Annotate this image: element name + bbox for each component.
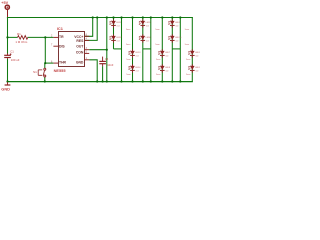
svg-text:IC1: IC1	[57, 26, 64, 31]
svg-text:R1: R1	[17, 32, 21, 36]
node R1 left tee	[6, 36, 8, 38]
LED10	[169, 34, 190, 45]
LED11	[186, 49, 202, 60]
pin stub THR	[53, 62, 58, 64]
node VCC rail	[92, 16, 94, 18]
svg-text:LED8: LED8	[165, 67, 171, 69]
wire crossover E	[172, 48, 180, 50]
pin stub VCC	[84, 35, 89, 37]
node colD bot	[161, 80, 163, 82]
svg-text:LED9: LED9	[175, 22, 181, 24]
svg-text:100 uF: 100 uF	[11, 58, 20, 62]
pin stub TR	[53, 36, 58, 38]
wire crossover A	[114, 48, 122, 50]
LED3	[126, 49, 141, 60]
wire return column A2	[121, 18, 123, 82]
LED6	[139, 34, 160, 45]
svg-text:red: red	[165, 55, 168, 57]
svg-text:red: red	[136, 55, 139, 57]
svg-text:RES: RES	[76, 39, 84, 43]
svg-text:GND: GND	[1, 87, 10, 92]
svg-text:red: red	[117, 40, 120, 42]
node colD top	[161, 16, 163, 18]
wire R1 row	[8, 36, 54, 38]
node OUT tee	[106, 49, 108, 51]
resistor R1	[18, 36, 28, 40]
pin stub GND	[84, 59, 89, 61]
LED8	[156, 64, 171, 75]
wire LED column D	[161, 18, 163, 82]
svg-text:LED1: LED1	[116, 22, 122, 24]
node colE top	[171, 16, 173, 18]
pin stub OUT	[84, 49, 89, 51]
LED9	[169, 19, 190, 30]
LED4	[126, 64, 141, 75]
svg-text:DIS: DIS	[59, 44, 65, 48]
node OUT bus bottom	[106, 80, 108, 82]
wire left vertical upper	[7, 18, 9, 54]
node colE2 bot	[179, 80, 181, 82]
svg-text:5mm: 5mm	[186, 74, 191, 76]
svg-text:red: red	[136, 70, 139, 72]
svg-text:red: red	[117, 25, 120, 27]
wire LED column C	[142, 18, 144, 82]
node switch rail	[44, 80, 46, 82]
wire OUT bus vertical	[106, 18, 108, 82]
node GND rail	[96, 80, 98, 82]
svg-text:5mm: 5mm	[155, 44, 160, 46]
svg-text:red: red	[165, 70, 168, 72]
node THR tee	[44, 62, 46, 64]
svg-text:LED11: LED11	[195, 52, 200, 54]
supply +5V symbol	[5, 5, 9, 17]
svg-text:LED12: LED12	[195, 67, 200, 69]
node colA2 top	[120, 16, 122, 18]
node colB top	[131, 16, 133, 18]
LED5	[139, 19, 160, 30]
switch S1	[38, 68, 46, 77]
wire bottom rail	[7, 81, 193, 83]
svg-text:THR: THR	[59, 60, 67, 64]
wire THR link	[45, 62, 53, 64]
node RES rail	[96, 16, 98, 18]
node colC top	[142, 16, 144, 18]
svg-text:5mm: 5mm	[126, 59, 131, 61]
svg-text:LED4: LED4	[135, 67, 141, 69]
wire RES elbow	[84, 18, 97, 41]
node GND sym tee	[6, 80, 8, 82]
wire return column E2	[179, 18, 181, 82]
node C2 rail	[102, 80, 104, 82]
svg-text:S1: S1	[33, 70, 37, 74]
wire GND elbow	[89, 60, 97, 82]
wire LED column E	[171, 18, 173, 82]
node colA top	[112, 16, 114, 18]
node colA2 bot	[120, 80, 122, 82]
node OUT bus top	[106, 16, 108, 18]
wire return column C2	[150, 18, 152, 82]
svg-text:+5V: +5V	[1, 1, 8, 5]
wire left vertical lower	[7, 59, 9, 82]
LED2	[110, 34, 131, 45]
svg-text:5mm: 5mm	[126, 29, 131, 31]
pin stub RES	[84, 39, 89, 41]
svg-text:C2: C2	[105, 57, 109, 61]
svg-text:10nF: 10nF	[107, 63, 113, 67]
svg-text:LED10: LED10	[175, 37, 182, 39]
wire top +5V rail	[7, 17, 193, 19]
svg-text:5mm: 5mm	[126, 44, 131, 46]
svg-text:red: red	[195, 55, 198, 57]
svg-text:red: red	[195, 70, 198, 72]
svg-text:LED7: LED7	[165, 52, 171, 54]
svg-text:red: red	[146, 40, 149, 42]
svg-text:NE555: NE555	[54, 68, 67, 73]
node colE bot	[171, 80, 173, 82]
wire LED column B	[132, 18, 134, 82]
svg-text:LED3: LED3	[135, 52, 141, 54]
svg-text:red: red	[175, 25, 178, 27]
svg-text:5mm: 5mm	[185, 44, 190, 46]
node TR tee	[44, 36, 46, 38]
svg-text:LED5: LED5	[146, 22, 152, 24]
svg-text:5mm: 5mm	[186, 59, 191, 61]
node colE2 top	[179, 16, 181, 18]
pin stub DIS	[53, 45, 58, 47]
capacitor C2	[99, 57, 106, 67]
wire LED column A	[113, 18, 115, 49]
wire right edge / LED column F	[191, 18, 193, 82]
wire C2 to rail	[102, 66, 104, 81]
wire VCC+ elbow	[84, 18, 92, 37]
svg-text:C1: C1	[10, 50, 14, 54]
pin stub CON	[84, 52, 89, 54]
svg-text:5mm: 5mm	[156, 74, 161, 76]
svg-text:LED2: LED2	[116, 37, 122, 39]
LED7	[156, 49, 171, 60]
svg-text:OUT: OUT	[76, 44, 84, 48]
node colC bot	[142, 80, 144, 82]
wire crossover C	[143, 48, 151, 50]
node colB bot	[131, 80, 133, 82]
wire switch top stub	[44, 63, 47, 68]
svg-text:5mm: 5mm	[126, 74, 131, 76]
wire OUT horizontal	[89, 49, 107, 51]
svg-text:1 M Ohm: 1 M Ohm	[15, 40, 27, 44]
svg-text:CON: CON	[76, 51, 84, 55]
svg-text:LED6: LED6	[146, 37, 152, 39]
ground symbol	[7, 82, 9, 85]
LED1	[110, 19, 131, 30]
node colC2 bot	[150, 80, 152, 82]
svg-text:red: red	[146, 25, 149, 27]
svg-text:5mm: 5mm	[156, 59, 161, 61]
svg-text:TR: TR	[59, 35, 64, 39]
svg-text:5mm: 5mm	[185, 29, 190, 31]
svg-text:5mm: 5mm	[155, 29, 160, 31]
capacitor C1	[4, 53, 11, 59]
svg-text:GND: GND	[76, 60, 84, 64]
op-amp IC1 NE555 box	[59, 32, 85, 67]
wire switch bottom stub	[44, 77, 46, 82]
svg-text:red: red	[175, 40, 178, 42]
node colC2 top	[150, 16, 152, 18]
svg-text:7: 7	[51, 44, 53, 46]
LED12	[186, 64, 202, 75]
wire TR-THR vertical	[44, 37, 46, 63]
